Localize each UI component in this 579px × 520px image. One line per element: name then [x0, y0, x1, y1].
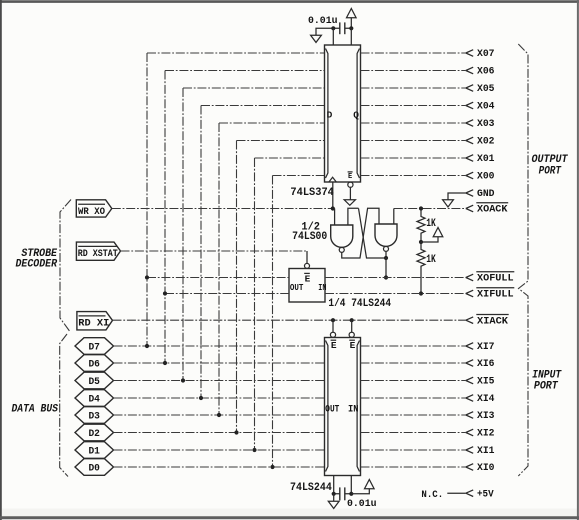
wire X06 output row — [361, 70, 466, 72]
node XI7 connector — [466, 343, 473, 350]
wire X01 output row — [361, 157, 466, 159]
wire XI1/D1 row from buffer to tag — [114, 449, 325, 451]
svg-text:+5V: +5V — [477, 488, 494, 500]
wire RD XSTAT to buffer E — [306, 251, 308, 263]
node XI2 label — [477, 428, 495, 440]
wire D0 bus riser — [272, 176, 274, 468]
node XOACK connector — [466, 205, 473, 212]
wire XI4 input row — [361, 397, 466, 399]
wire D3 row into latch — [219, 122, 325, 124]
wire XOFULL row — [325, 277, 466, 279]
wire G1 input A from WR XO — [334, 209, 336, 226]
svg-text:74LS374: 74LS374 — [290, 187, 334, 199]
wire RD XI to XIACK row — [113, 319, 466, 321]
wire XI4/D4 row from buffer to tag — [114, 397, 325, 399]
node XI5 label — [477, 376, 495, 388]
svg-text:DATA BUS: DATA BUS — [12, 404, 59, 416]
wire status OUT D6 — [165, 293, 289, 295]
svg-text:XI4: XI4 — [477, 393, 495, 405]
wire D4 row into latch — [201, 105, 325, 107]
wire XI3/D3 row from buffer to tag — [114, 414, 325, 416]
svg-text:D7: D7 — [88, 342, 100, 353]
junction RD XI to E1 — [331, 318, 335, 322]
junction D4 riser to XI4 row — [199, 396, 203, 400]
resistor R1 1K — [417, 209, 425, 243]
svg-text:XI3: XI3 — [477, 410, 495, 422]
node XI2 connector — [466, 429, 473, 436]
svg-text:DECODER: DECODER — [16, 259, 58, 271]
svg-text:D2: D2 — [88, 429, 100, 440]
svg-text:D4: D4 — [88, 394, 100, 405]
wire XI6/D6 row from buffer to tag — [114, 362, 325, 364]
svg-text:PORT: PORT — [534, 380, 558, 392]
svg-text:N.C.: N.C. — [421, 489, 443, 501]
wire GND pin 74LS374 — [332, 28, 334, 45]
svg-text:D1: D1 — [88, 446, 100, 457]
svg-text:XOFULL: XOFULL — [477, 273, 514, 285]
node X07 label — [477, 48, 495, 60]
svg-text:X07: X07 — [477, 48, 495, 60]
svg-text:XI1: XI1 — [477, 445, 495, 457]
wire D1 bus riser — [254, 158, 256, 450]
node XI3 label — [477, 410, 495, 422]
wire G1 input B riser — [348, 208, 359, 225]
wire XI2 input row — [361, 432, 466, 434]
junction D6 riser to XI6 row — [163, 361, 167, 365]
node X02 label — [477, 136, 495, 148]
node WR XO strobe tag — [76, 200, 112, 218]
ground below 74LS374 E — [344, 200, 355, 206]
svg-text:XIACK: XIACK — [477, 315, 509, 327]
node RD XSTAT strobe tag — [76, 242, 120, 260]
strobe decoder brace — [60, 200, 71, 332]
wire bottom cap to +5V — [351, 489, 369, 494]
node XI1 connector — [466, 447, 473, 454]
wire X04 output row — [361, 105, 466, 107]
wire top cap left to ground — [316, 28, 340, 35]
node XI4 label — [477, 393, 495, 405]
wire XIFULL row — [325, 293, 466, 295]
node X04 label — [477, 101, 495, 113]
junction top cap left node — [331, 26, 335, 30]
node X00 label — [477, 171, 495, 183]
transistor G2 NAND gate 74LS00b — [375, 224, 397, 251]
wire XI7/D7 row from buffer to tag — [114, 345, 325, 347]
node XI0 connector — [466, 464, 473, 471]
node X03 connector — [466, 120, 473, 127]
wire E1 drop — [332, 320, 334, 332]
junction bottom cap left node — [332, 492, 336, 496]
svg-text:XIFULL: XIFULL — [477, 289, 514, 301]
output/input port brace — [518, 44, 528, 476]
wire XI3 input row — [361, 414, 466, 416]
wire XI7 input row — [361, 345, 466, 347]
node XOACK label — [476, 203, 508, 216]
junction D0 riser to XI0 row — [270, 465, 274, 469]
node D1 bus tag — [75, 442, 114, 459]
wire RD XSTAT row — [121, 250, 308, 252]
node XI0 label — [477, 462, 495, 474]
wire XI2/D2 row from buffer to tag — [114, 432, 325, 434]
op-amp U2 1/4 74LS244 status buffer body — [289, 269, 325, 303]
svg-text:RD XI: RD XI — [78, 319, 109, 330]
node +5V label — [477, 488, 494, 500]
wire X03 output row — [361, 122, 466, 124]
svg-text:OUT: OUT — [325, 405, 339, 416]
node XI5 connector — [466, 377, 473, 384]
svg-text:X03: X03 — [477, 118, 495, 130]
pin E 74LS374 — [348, 172, 353, 187]
svg-text:GND: GND — [477, 188, 495, 200]
op-amp U3 74LS244 input buffer body — [325, 338, 361, 476]
svg-text:Q: Q — [353, 110, 359, 121]
node XOFULL label — [476, 272, 514, 285]
node X07 connector — [466, 50, 473, 57]
svg-text:XI7: XI7 — [477, 341, 495, 353]
wire D4 bus riser — [200, 106, 202, 399]
transistor G1 NAND gate 74LS00a — [331, 225, 353, 252]
wire XI0/D0 row from buffer to tag — [114, 466, 325, 468]
node D2 bus tag — [75, 424, 114, 441]
wire Vcc pin 74LS374 — [350, 28, 352, 45]
node XIFULL label — [476, 288, 514, 301]
node D0 bus tag — [75, 459, 114, 476]
wire G1 output cross to G2 input A — [342, 208, 379, 258]
svg-text:D0: D0 — [88, 463, 100, 474]
wire Vcc pin input buffer — [345, 476, 352, 494]
ground bottom cap — [328, 501, 339, 508]
wire D3 bus riser — [218, 123, 220, 415]
pin E2 input buffer — [349, 332, 356, 351]
node X05 connector — [466, 85, 473, 92]
junction R2 to XIFULL — [419, 291, 423, 295]
node XIACK label — [476, 315, 508, 328]
junction D5 riser to XI5 row — [181, 378, 185, 382]
junction bottom cap right node — [349, 492, 353, 496]
node D5 bus tag — [75, 372, 114, 389]
resistor R2 1K — [417, 242, 425, 294]
svg-text:E: E — [331, 340, 337, 351]
wire D2 bus riser — [236, 141, 238, 433]
power +5V bottom cap — [365, 480, 375, 489]
clock pin 74LS374 — [329, 177, 336, 182]
node XI3 connector — [466, 412, 473, 419]
svg-text:OUT: OUT — [290, 283, 304, 293]
node X03 label — [477, 118, 495, 130]
junction XOACK to R1 — [419, 206, 423, 210]
wire D6 row into latch — [165, 70, 325, 72]
wire XI6 input row — [361, 362, 466, 364]
wire +5V feed to resistors — [421, 237, 438, 242]
svg-text:PORT: PORT — [539, 165, 562, 177]
wire WR XO row — [112, 208, 335, 210]
wire X07 output row — [361, 52, 466, 54]
svg-text:XOACK: XOACK — [477, 204, 508, 216]
power +5V resistor divider — [433, 228, 443, 237]
junction D3 riser to XI3 row — [217, 413, 221, 417]
svg-text:E: E — [350, 340, 356, 351]
node X02 connector — [466, 137, 473, 144]
svg-text:E: E — [305, 273, 311, 284]
junction D7 riser to XI7 row — [145, 344, 149, 348]
junction status OUT to D7 riser — [145, 275, 149, 279]
node X05 label — [477, 83, 495, 95]
pin E1 input buffer — [330, 332, 337, 351]
node X01 connector — [466, 155, 473, 162]
node XI6 connector — [466, 360, 473, 367]
power +5V top cap — [347, 9, 357, 18]
node D4 bus tag — [75, 390, 114, 407]
svg-text:74LS244: 74LS244 — [290, 482, 332, 494]
wire XI0 input row — [361, 466, 466, 468]
junction WR XO / clock / G1 — [331, 206, 335, 210]
wire D5 row into latch — [183, 87, 325, 89]
svg-text:D5: D5 — [88, 377, 100, 388]
wire WR XO to latch clock — [332, 182, 334, 209]
node X01 label — [477, 153, 495, 165]
svg-text:1K: 1K — [426, 218, 436, 230]
node GND connector — [466, 190, 473, 197]
junction D1 riser to XI1 row — [252, 448, 256, 452]
wire XI5 input row — [361, 380, 466, 382]
svg-text:XI0: XI0 — [477, 462, 495, 474]
wire XOACK row — [394, 208, 466, 210]
junction top cap right node — [349, 26, 353, 30]
junction R1/R2/+5V node — [419, 240, 423, 244]
junction RD XI to E2 — [350, 318, 354, 322]
wire D0 row into latch — [273, 175, 325, 177]
wire D2 row into latch — [237, 140, 325, 142]
wire GND pin input buffer — [334, 476, 340, 494]
data bus brace — [60, 334, 68, 477]
wire X05 output row — [361, 87, 466, 89]
wire G2 input B from XOACK — [393, 209, 395, 225]
svg-text:D6: D6 — [88, 359, 100, 370]
wire D1 row into latch — [255, 157, 325, 159]
capacitor C2 0.01u — [340, 487, 345, 500]
junction status OUT to D6 riser — [163, 291, 167, 295]
wire G2 output cross to G1 input B — [359, 208, 387, 258]
svg-text:RD XSTAT: RD XSTAT — [78, 249, 118, 260]
wire E2 drop — [351, 320, 353, 332]
pin E status buffer — [304, 263, 310, 284]
wire D6 bus riser — [164, 71, 166, 364]
node XI6 label — [477, 358, 495, 370]
svg-text:1/4 74LS244: 1/4 74LS244 — [328, 298, 391, 310]
svg-text:IN: IN — [318, 283, 326, 293]
wire D5 bus riser — [182, 88, 184, 381]
node XI7 label — [477, 341, 495, 353]
node D7 bus tag — [75, 338, 114, 355]
junction G2 output node — [384, 256, 388, 260]
op-amp U1 74LS374 latch body — [325, 45, 361, 182]
node GND label — [477, 188, 495, 200]
ground top cap — [311, 35, 322, 42]
svg-text:XI6: XI6 — [477, 358, 495, 370]
svg-text:IN: IN — [348, 405, 359, 416]
svg-text:OUTPUT: OUTPUT — [531, 154, 568, 166]
node X00 connector — [466, 172, 473, 179]
node RD XI strobe tag — [77, 312, 113, 330]
wire D7 row into latch — [147, 52, 325, 54]
svg-text:X06: X06 — [477, 66, 495, 78]
svg-text:X00: X00 — [477, 171, 495, 183]
svg-text:0.01u: 0.01u — [308, 15, 338, 27]
svg-text:74LS00: 74LS00 — [292, 231, 327, 243]
junction G2 output on XOFULL — [384, 275, 388, 279]
svg-text:X04: X04 — [477, 101, 495, 113]
svg-text:D: D — [327, 110, 333, 121]
node XIFULL connector — [466, 290, 473, 297]
wire X02 output row — [361, 140, 466, 142]
wire status OUT D7 — [147, 277, 289, 279]
node XI1 label — [477, 445, 495, 457]
wire 74LS374 E to ground — [349, 187, 351, 200]
ground port GND — [443, 200, 454, 207]
node XIACK connector — [466, 317, 473, 324]
node X06 connector — [466, 67, 473, 74]
wire bottom cap to ground — [333, 494, 335, 502]
wire GND stub — [448, 193, 466, 200]
wire XI5/D5 row from buffer to tag — [114, 380, 325, 382]
svg-text:D3: D3 — [88, 411, 100, 422]
node XI4 connector — [466, 395, 473, 402]
node XOFULL connector — [466, 274, 473, 281]
svg-text:1K: 1K — [426, 254, 436, 266]
node X04 connector — [466, 102, 473, 109]
junction D2 riser to XI2 row — [234, 430, 238, 434]
node D3 bus tag — [75, 407, 114, 424]
svg-text:WR XO: WR XO — [78, 207, 105, 218]
node +5V connector — [466, 490, 473, 497]
svg-text:XI2: XI2 — [477, 428, 495, 440]
svg-text:E: E — [348, 173, 352, 181]
capacitor C1 0.01u — [340, 22, 345, 34]
wire X00 output row — [361, 175, 466, 177]
svg-text:X01: X01 — [477, 153, 495, 165]
svg-text:X02: X02 — [477, 136, 495, 148]
node X06 label — [477, 66, 495, 78]
node D6 bus tag — [75, 355, 114, 372]
svg-text:X05: X05 — [477, 83, 495, 95]
wire XI1 input row — [361, 449, 466, 451]
svg-text:XI5: XI5 — [477, 376, 495, 388]
svg-text:0.01u: 0.01u — [347, 498, 377, 510]
wire G2 output to XOFULL row — [385, 258, 387, 278]
wire top cap right to +5V — [345, 18, 352, 28]
wire D7 bus riser — [146, 53, 148, 346]
wire N.C. stub — [447, 492, 466, 494]
